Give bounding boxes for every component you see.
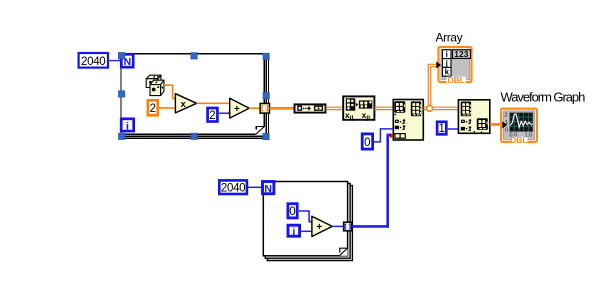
coercion dot (red) on add input [229,111,233,116]
numeric constant 1 (to index array) [437,122,446,135]
wire dice to multiply [164,85,175,98]
svg-text:ji: ji [365,114,370,121]
wire junction (solder dot) [427,105,433,111]
Waveform Graph indicator terminal [501,109,537,145]
coercion arrow (red) on replace-subset input [390,133,395,138]
wire 2040 to N (loop 2) [248,186,262,188]
svg-text:Array: Array [436,31,463,45]
random number dice icon [146,75,164,95]
svg-text:2: 2 [505,113,508,119]
selection handle over N terminal [118,53,124,59]
iteration terminal i (loop 2) [288,225,300,238]
svg-text:2040: 2040 [221,183,245,195]
transpose 2D array node [343,96,374,121]
wire junction up to Array indicator (2D DBL) [428,64,437,106]
wire replace-subset to junction and index-array (2D DBL) [423,107,458,109]
svg-text:x: x [181,99,187,110]
svg-text:2040: 2040 [81,56,105,68]
numeric constant 0 (loop 2) [288,204,297,219]
numeric constant 2 blue (loop 1) [208,108,218,122]
iteration terminal i (loop 1) [121,119,134,133]
svg-text:i: i [292,226,295,238]
wire index-array to waveform graph (1D DBL) [490,123,502,126]
count terminal N (loop 1) [121,54,133,68]
svg-text:Waveform Graph: Waveform Graph [501,90,586,105]
indexing tunnel (loop 2 output) [344,222,352,231]
numeric constant 2040 (loop 2) [219,180,247,194]
wire constant 2 to multiply [158,107,175,109]
wire constant 2 to add [219,112,229,114]
wire loop2 tunnel to replace-subset (1D I32) [352,135,391,227]
for-loop 2 corner fold [339,248,347,256]
svg-text:+: + [316,222,322,233]
wire constant 0 to add (loop 2) [299,211,312,222]
multiply node [175,94,196,113]
for-loop 1 selection handles [118,53,269,140]
svg-text:DBL: DBL [447,75,464,85]
wire i to add (loop 2) [301,230,312,232]
svg-text:123: 123 [454,50,468,59]
svg-text:0: 0 [505,127,508,133]
wire tunnel1 to build-array (1D DBL) [270,107,295,110]
wire add to tunnel [249,107,260,109]
svg-text:DBL: DBL [510,135,527,145]
for-loop 1 border [121,54,268,139]
svg-text:i: i [446,50,448,59]
for-loop 2 border [263,182,352,261]
build array node [295,104,326,112]
replace array subset node [393,100,423,141]
svg-text:j: j [445,59,448,68]
count terminal N (loop 2) [263,182,274,195]
svg-text:N: N [264,183,272,195]
svg-text:2: 2 [209,110,215,122]
index array node [458,100,489,134]
svg-text:0: 0 [364,137,370,149]
wire multiply to add [197,102,230,104]
indexing tunnel (loop 1 output) [260,104,269,114]
svg-text:1: 1 [438,123,444,135]
wire build-array to transpose (2D DBL) [326,107,344,109]
numeric constant 2040 (loop 1) [79,53,108,68]
svg-text:2: 2 [150,103,156,115]
numeric constant 2 orange (loop 1) [148,100,158,115]
add node (loop 1) [230,98,250,118]
svg-text:+: + [234,104,240,115]
for-loop 1 corner fold [256,126,265,135]
wire add to tunnel (loop 2) [332,225,343,227]
svg-text:0: 0 [289,206,295,218]
numeric constant 0 (to replace-subset) [362,134,372,149]
wire transpose to replace-subset (2D DBL) [374,107,393,109]
svg-text:ij: ij [350,114,354,121]
wire constant 0 to replace-subset [374,129,393,142]
add node (loop 2) [312,216,332,236]
wire 2040 to N (loop 1) [109,60,121,62]
svg-text:i: i [126,120,129,132]
Array indicator terminal [436,47,471,85]
wire constant 1 to index array [448,128,459,130]
